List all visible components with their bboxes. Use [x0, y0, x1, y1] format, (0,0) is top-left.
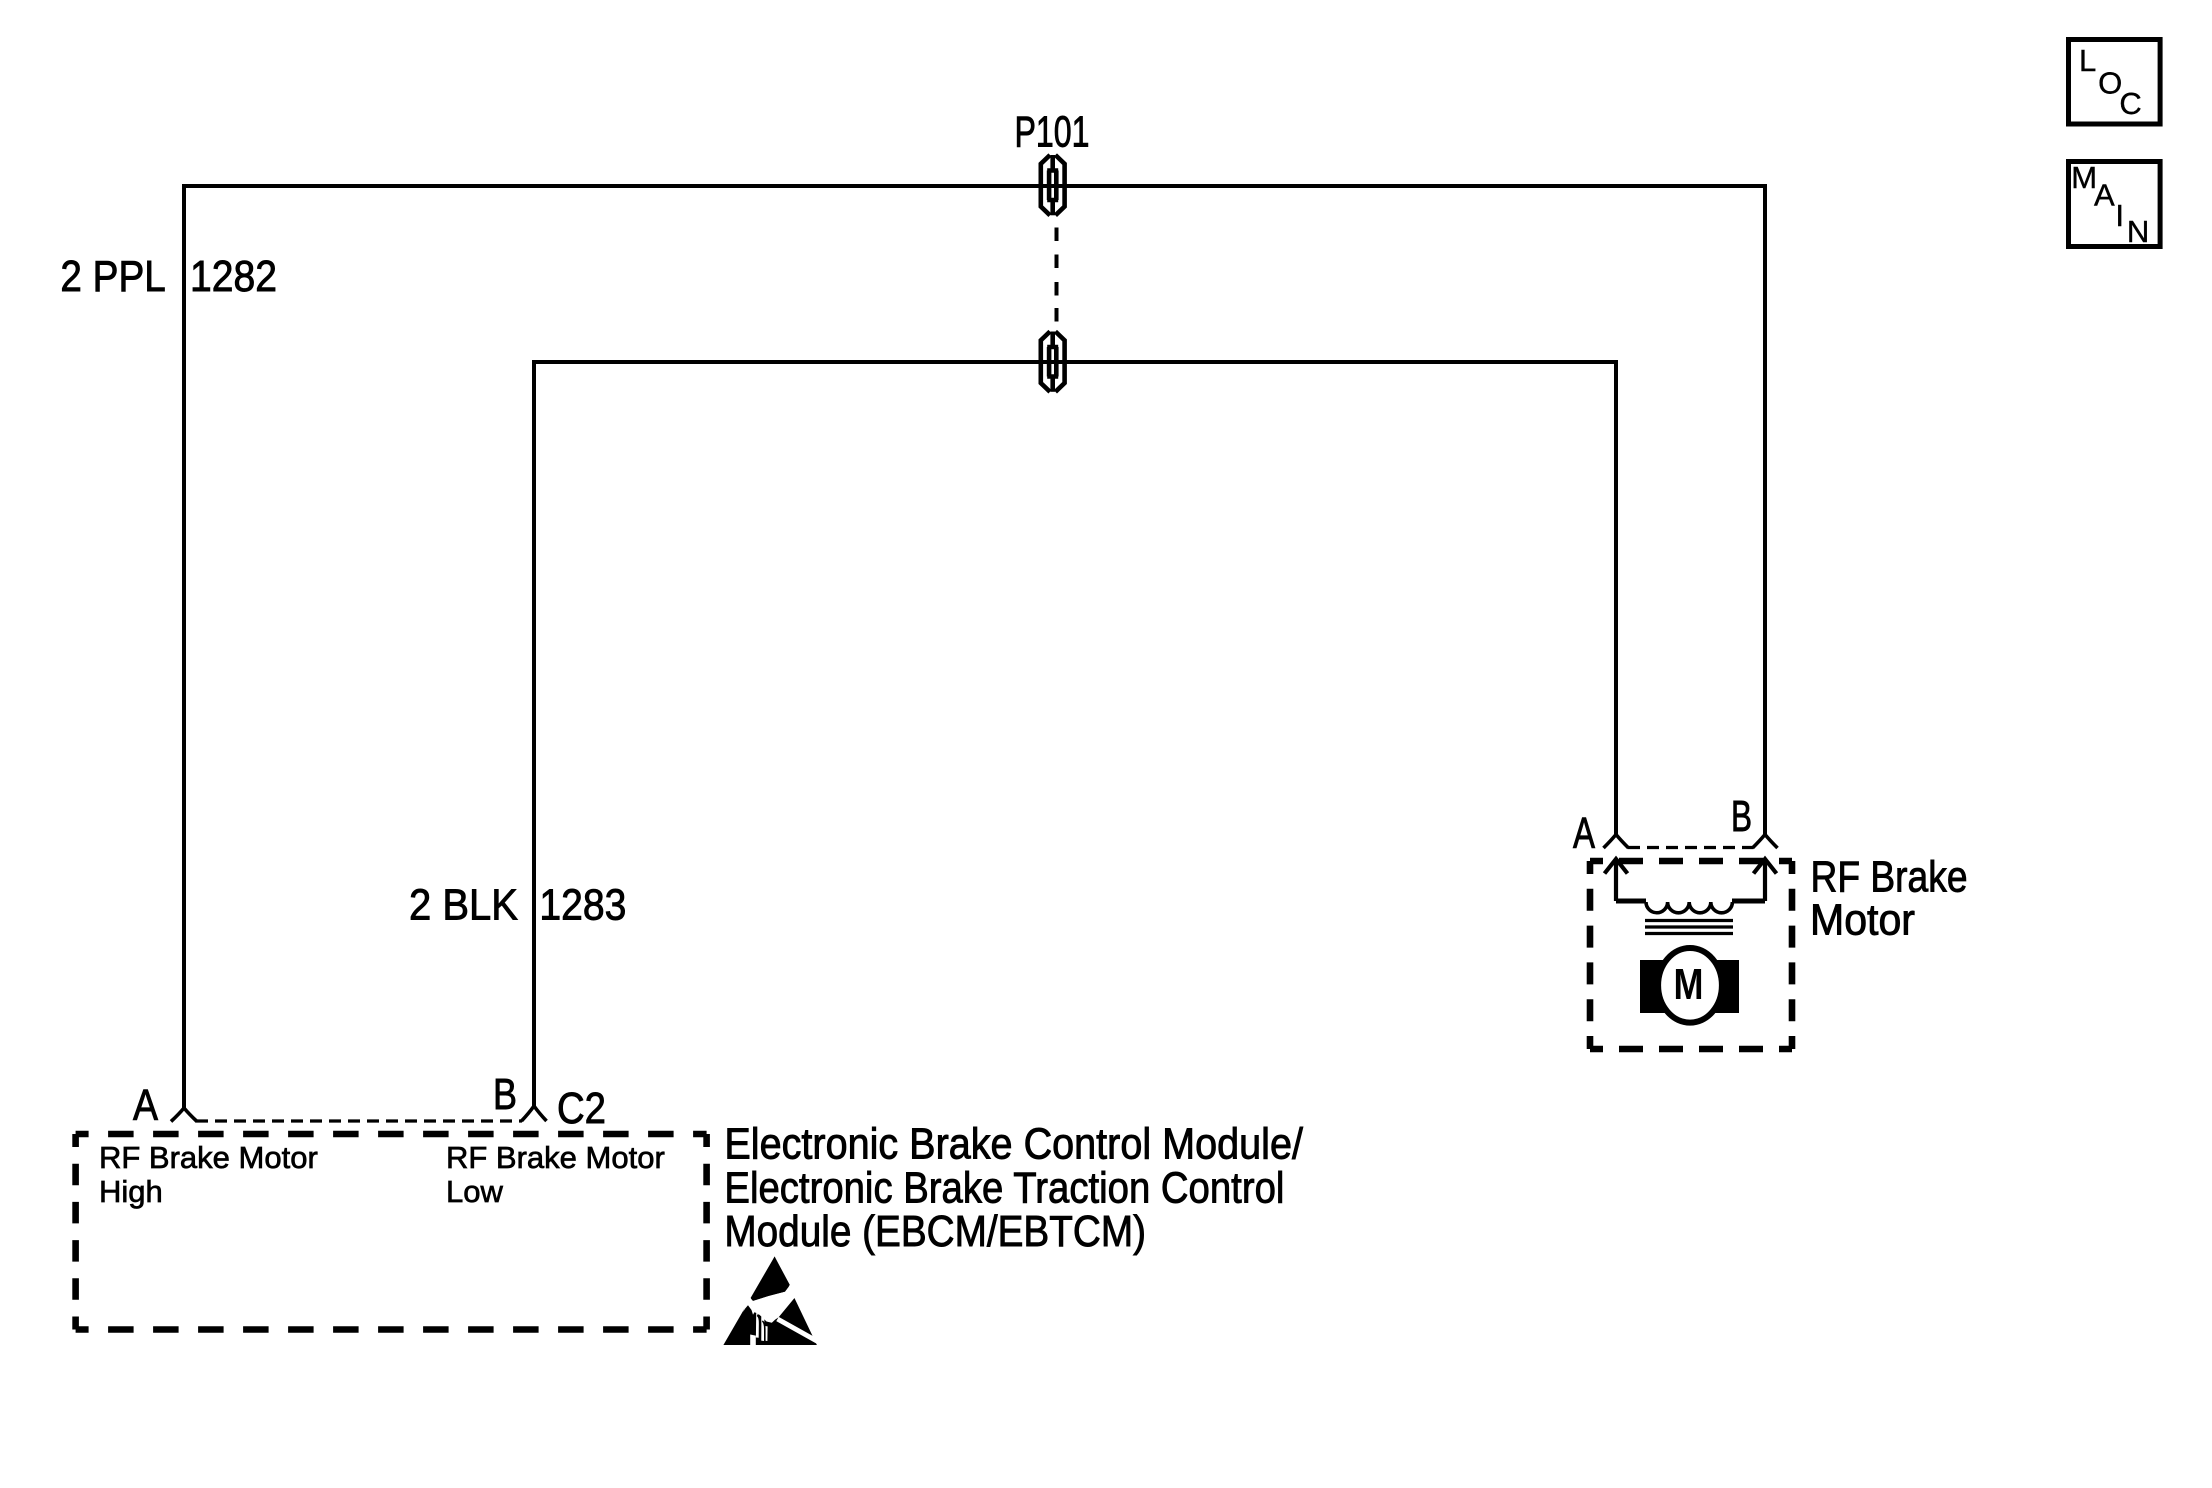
svg-text:RF Brake Motor: RF Brake Motor [99, 1140, 318, 1175]
node B EBCM pin terminal [522, 1106, 547, 1121]
connector P101 upper half [1041, 155, 1065, 215]
LOC box [2069, 40, 2161, 125]
svg-text:C2: C2 [557, 1084, 606, 1133]
svg-text:M: M [1674, 960, 1704, 1009]
svg-text:A: A [133, 1081, 159, 1130]
wire dashed link pin A to pin B (motor) [1628, 846, 1753, 849]
svg-text:RF Brake Motor: RF Brake Motor [446, 1140, 665, 1175]
svg-text:Low: Low [446, 1174, 503, 1209]
svg-text:P101: P101 [1015, 108, 1090, 157]
svg-text:A: A [1573, 809, 1595, 858]
connector P101 lower half [1041, 332, 1065, 392]
arrow into pin B [1754, 859, 1777, 901]
inductor core lines [1645, 921, 1733, 934]
svg-text:2 BLK: 2 BLK [409, 881, 518, 930]
svg-text:High: High [99, 1174, 163, 1209]
svg-text:I: I [2115, 198, 2124, 233]
svg-text:Electronic Brake Control Modul: Electronic Brake Control Module/ [724, 1120, 1303, 1169]
svg-text:RF Brake: RF Brake [1811, 853, 1968, 902]
motor M [1640, 948, 1739, 1023]
svg-text:B: B [493, 1070, 517, 1119]
svg-text:1282: 1282 [190, 252, 277, 301]
ESD symbol [723, 1257, 819, 1346]
node A motor pin terminal [1604, 835, 1629, 849]
node B motor pin terminal [1753, 835, 1778, 849]
wire dashed link between P101 halves [1055, 228, 1059, 322]
arrow into pin A [1605, 859, 1628, 901]
svg-text:Motor: Motor [1810, 896, 1915, 945]
svg-text:L: L [2079, 43, 2096, 78]
node A EBCM pin terminal [171, 1108, 197, 1122]
EBCM module dashed box [76, 1134, 707, 1330]
svg-text:2 PPL: 2 PPL [60, 252, 165, 301]
wire 2 BLK 1283 (EBCM pin B to motor pin A) [534, 362, 1616, 1106]
svg-text:1283: 1283 [539, 881, 626, 930]
wire dashed link pin A to pin B (EBCM) [196, 1119, 522, 1122]
svg-text:Electronic Brake Traction Cont: Electronic Brake Traction Control [724, 1164, 1284, 1213]
svg-text:N: N [2127, 214, 2149, 249]
MAIN box [2069, 160, 2161, 249]
svg-text:B: B [1731, 792, 1752, 841]
svg-text:C: C [2119, 86, 2141, 121]
RF brake motor dashed box [1590, 861, 1792, 1049]
wire 2 PPL 1282 (EBCM pin A to motor pin B) [184, 186, 1765, 1108]
inductor winding [1616, 899, 1765, 904]
svg-text:Module (EBCM/EBTCM): Module (EBCM/EBTCM) [724, 1207, 1146, 1256]
svg-text:A: A [2094, 177, 2115, 212]
